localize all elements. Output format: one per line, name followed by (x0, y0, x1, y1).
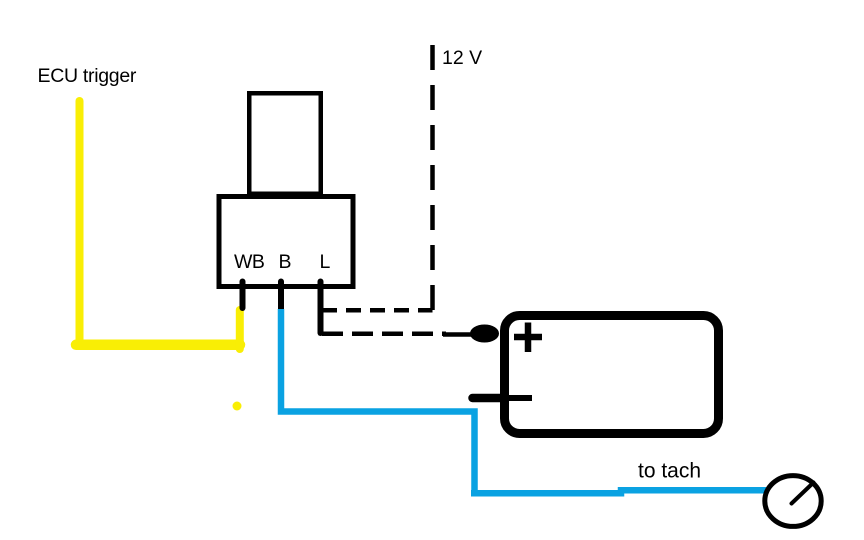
wire yellow ECU trigger (76, 101, 84, 345)
svg-text:B: B (279, 251, 292, 273)
wire blue to tach (471, 490, 766, 493)
svg-text:L: L (320, 251, 331, 273)
tach gauge circle (765, 476, 821, 527)
svg-text:ECU trigger: ECU trigger (38, 65, 137, 87)
plus symbol (514, 323, 542, 353)
svg-text:to tach: to tach (638, 460, 701, 483)
pin L (318, 282, 324, 334)
yellow dot (233, 402, 242, 411)
pin WB (240, 282, 246, 309)
svg-text:WB: WB (234, 251, 264, 273)
wire dashed 12V horizontal to L (322, 308, 433, 313)
wire dashed L to battery plus (322, 332, 446, 337)
pin B (278, 282, 284, 312)
plus terminal blob (470, 325, 499, 343)
minus terminal stub (473, 394, 505, 403)
wire yellow horizontal (76, 340, 240, 351)
wire yellow right vertical (236, 310, 244, 349)
svg-text:12 V: 12 V (442, 47, 482, 69)
wire dashed 12V vertical (430, 45, 435, 311)
wire blue B to battery minus (281, 309, 475, 493)
battery box (505, 316, 719, 434)
wire solid to plus terminal (443, 332, 476, 337)
coil tower (small box) (249, 93, 321, 194)
tach needle (792, 483, 814, 504)
minus symbol (506, 395, 532, 401)
coil body (big box) (219, 197, 353, 287)
